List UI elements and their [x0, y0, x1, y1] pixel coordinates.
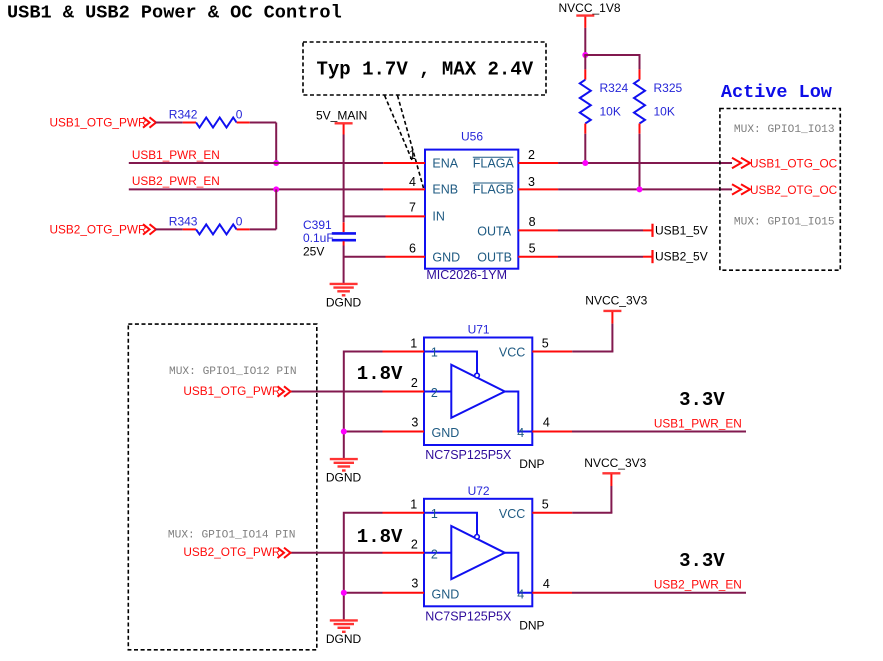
svg-text:8: 8: [529, 215, 536, 229]
pin 5 VCC U71: [532, 351, 572, 353]
wire gnd U71: [344, 431, 383, 433]
svg-text:7: 7: [409, 201, 416, 215]
svg-text:MUX: GPIO1_IO13: MUX: GPIO1_IO13: [734, 124, 835, 136]
svg-text:OUTA: OUTA: [477, 224, 511, 238]
dashed box MUX GPIO right: [720, 109, 840, 271]
resistor R342: [156, 122, 183, 124]
svg-text:Active Low: Active Low: [721, 82, 832, 103]
wire IN pin from 5V rail: [344, 215, 386, 217]
wire output U72 to USB2_PWR_EN: [572, 592, 746, 594]
svg-text:USB2_OTG_PWR: USB2_OTG_PWR: [183, 545, 280, 559]
svg-text:4: 4: [517, 426, 524, 440]
node R324/FLAGA: [582, 160, 588, 166]
svg-text:3: 3: [411, 577, 418, 591]
buffer triangle U72: [451, 526, 505, 579]
svg-text:DNP: DNP: [519, 618, 544, 632]
leader line to pin 4: [398, 96, 424, 189]
svg-text:5: 5: [529, 241, 536, 255]
pin 4 out U72: [532, 592, 572, 594]
wire junction to R325 branch: [584, 54, 640, 56]
port USB1_5V: [651, 224, 653, 237]
wire R343 up to USB2_PWR_EN junction: [250, 228, 276, 230]
pin 3 U72: [383, 592, 425, 594]
node pullup junction: [582, 52, 588, 58]
svg-text:USB1_OTG_OC: USB1_OTG_OC: [750, 157, 838, 171]
svg-text:2: 2: [431, 386, 438, 400]
svg-text:NC7SP125P5X: NC7SP125P5X: [425, 610, 512, 624]
svg-text:DNP: DNP: [519, 457, 544, 471]
leader line to pin 1: [385, 96, 413, 163]
pin 1 U72: [383, 512, 425, 514]
wire gnd U72: [344, 592, 383, 594]
pin 7 (IN): [386, 215, 426, 217]
node gnd junction U71: [341, 429, 347, 435]
svg-text:1: 1: [431, 507, 438, 521]
svg-text:1: 1: [410, 498, 417, 512]
pin 2 U71: [383, 391, 425, 393]
wire USB2_PWR_EN to pin 4: [129, 188, 383, 190]
svg-text:5: 5: [542, 336, 549, 350]
svg-text:USB1_OTG_PWR: USB1_OTG_PWR: [50, 115, 147, 129]
wire USB1_PWR_EN to pin 1: [129, 162, 383, 164]
buffer triangle U71: [451, 365, 505, 418]
output internal route U72: [505, 553, 533, 593]
node junction USB2_PWR_EN: [273, 186, 279, 192]
svg-text:MUX: GPIO1_IO14 PIN: MUX: GPIO1_IO14 PIN: [168, 530, 296, 542]
svg-text:3: 3: [528, 175, 535, 189]
wire R324 to FLAGA net: [584, 134, 586, 163]
pin 8 (OUTA): [518, 229, 558, 231]
svg-text:4: 4: [409, 175, 416, 189]
buffer U71 NC7SP125P5X: [424, 338, 532, 446]
port USB2_OTG_OC: [732, 184, 741, 194]
svg-text:10K: 10K: [654, 105, 675, 119]
wire FLAGB to USB2_OTG_OC: [558, 188, 732, 190]
wire OE riser U71: [344, 352, 383, 459]
wire OUTA to USB1_5V: [558, 229, 643, 231]
node R325/FLAGB: [637, 186, 643, 192]
svg-text:R343: R343: [169, 214, 198, 228]
pin 2 internal route U71: [424, 391, 451, 393]
output internal route U71: [505, 392, 533, 432]
svg-text:3.3V: 3.3V: [679, 389, 725, 411]
svg-text:USB2_OTG_PWR: USB2_OTG_PWR: [50, 222, 147, 236]
svg-text:5V_MAIN: 5V_MAIN: [316, 109, 367, 123]
svg-text:USB1_PWR_EN: USB1_PWR_EN: [132, 148, 220, 162]
svg-text:USB2_PWR_EN: USB2_PWR_EN: [654, 578, 742, 592]
wire R325 to FLAGB net: [639, 134, 641, 190]
svg-text:VCC: VCC: [499, 346, 525, 360]
svg-text:NVCC_1V8: NVCC_1V8: [559, 1, 621, 15]
svg-text:USB2_OTG_OC: USB2_OTG_OC: [750, 183, 838, 197]
svg-text:VCC: VCC: [499, 507, 525, 521]
svg-text:2: 2: [431, 547, 438, 561]
svg-text:U72: U72: [468, 484, 490, 498]
node junction USB1_PWR_EN: [273, 160, 279, 166]
svg-text:1: 1: [410, 336, 417, 350]
svg-text:ENA: ENA: [432, 157, 458, 171]
svg-text:GND: GND: [432, 426, 460, 440]
svg-text:GND: GND: [432, 588, 460, 602]
pin 5 VCC U72: [532, 512, 572, 514]
svg-text:NC7SP125P5X: NC7SP125P5X: [425, 448, 512, 462]
pin 1 internal route U72: [424, 513, 477, 535]
wire R342 to USB1_PWR_EN junction: [250, 122, 276, 124]
svg-text:R325: R325: [654, 81, 683, 95]
svg-text:Typ 1.7V , MAX 2.4V: Typ 1.7V , MAX 2.4V: [317, 59, 534, 81]
node gnd junction U72: [341, 590, 347, 596]
svg-text:USB2_5V: USB2_5V: [655, 250, 708, 264]
svg-text:1.8V: 1.8V: [357, 526, 403, 548]
svg-text:0: 0: [236, 214, 243, 228]
wire NVCC_1V8 to junction: [584, 28, 586, 55]
resistor R343: [156, 228, 183, 230]
pin 5 (OUTB): [518, 256, 558, 258]
pin 1 (ENA): [383, 162, 425, 164]
svg-text:DGND: DGND: [326, 632, 362, 646]
pin 6 (GND): [386, 256, 426, 258]
ground DGND U72: [330, 619, 358, 621]
ground DGND (C391): [330, 283, 358, 285]
svg-text:USB1_PWR_EN: USB1_PWR_EN: [654, 416, 742, 430]
wire GND pin from rail: [344, 256, 386, 258]
pin 2 internal route U72: [424, 552, 451, 554]
buffer U72 NC7SP125P5X: [424, 499, 532, 607]
svg-text:U71: U71: [468, 323, 490, 337]
svg-text:DGND: DGND: [326, 471, 362, 485]
svg-text:U56: U56: [461, 130, 483, 144]
resistor R324: [584, 55, 586, 69]
svg-text:MIC2026-1YM: MIC2026-1YM: [426, 268, 507, 282]
svg-text:3: 3: [411, 415, 418, 429]
op-amp U56 MIC2026-1YM power distribution switch: [425, 150, 518, 269]
pin 1 internal route U71: [424, 352, 477, 374]
svg-text:GND: GND: [432, 251, 460, 265]
OE bubble U72: [475, 535, 480, 540]
pin 4 out U71: [532, 431, 572, 433]
wire output U71 to USB1_PWR_EN: [572, 431, 746, 433]
port USB1_OTG_OC: [732, 158, 741, 168]
wire input U71: [291, 391, 383, 393]
port USB2_5V: [651, 250, 653, 263]
svg-text:USB1_OTG_PWR: USB1_OTG_PWR: [183, 384, 280, 398]
svg-text:1: 1: [431, 346, 438, 360]
svg-text:OUTB: OUTB: [477, 251, 512, 265]
OE bubble U71: [475, 373, 480, 378]
svg-text:2: 2: [411, 537, 418, 551]
pin 3 U71: [383, 431, 425, 433]
svg-text:C391: C391: [303, 218, 332, 232]
wire C391 to ground rail: [343, 241, 345, 245]
svg-text:4: 4: [543, 416, 550, 430]
ground DGND U71: [330, 458, 358, 460]
note box Typ 1.7V , MAX 2.4V: [303, 42, 546, 95]
pin 2 (FLAGA): [518, 162, 558, 164]
svg-text:1.8V: 1.8V: [357, 363, 403, 385]
svg-text:0.1uF: 0.1uF: [303, 231, 334, 245]
svg-text:0: 0: [236, 108, 243, 122]
svg-text:FLAGB: FLAGB: [473, 182, 514, 196]
svg-text:10K: 10K: [600, 105, 621, 119]
svg-text:4: 4: [517, 588, 524, 602]
pin 3 (FLAGB): [518, 188, 558, 190]
wire VCC U71: [611, 324, 613, 352]
svg-text:NVCC_3V3: NVCC_3V3: [585, 294, 647, 308]
svg-text:ENB: ENB: [432, 182, 458, 196]
svg-text:USB1_5V: USB1_5V: [655, 223, 708, 237]
svg-text:5: 5: [542, 498, 549, 512]
pin 4 (ENB): [383, 188, 425, 190]
wire OE riser U72: [344, 513, 383, 620]
resistor R325: [639, 55, 641, 69]
wire input U72: [291, 552, 383, 554]
svg-text:R342: R342: [169, 108, 198, 122]
svg-text:MUX: GPIO1_IO15: MUX: GPIO1_IO15: [734, 217, 835, 229]
wire FLAGA to USB1_OTG_OC: [558, 162, 732, 164]
svg-text:2: 2: [411, 376, 418, 390]
svg-text:6: 6: [409, 241, 416, 255]
svg-text:1: 1: [409, 148, 416, 162]
svg-text:MUX: GPIO1_IO12 PIN: MUX: GPIO1_IO12 PIN: [169, 366, 297, 378]
svg-text:3.3V: 3.3V: [679, 550, 725, 572]
svg-text:USB2_PWR_EN: USB2_PWR_EN: [132, 174, 220, 188]
svg-text:IN: IN: [432, 209, 445, 223]
svg-text:2: 2: [528, 148, 535, 162]
svg-text:R324: R324: [600, 81, 629, 95]
dashed box MUX GPIO left: [128, 324, 316, 650]
wire OUTB to USB2_5V: [558, 256, 643, 258]
capacitor C391: [332, 232, 356, 235]
pin 1 U71: [383, 351, 425, 353]
pin 2 U72: [383, 552, 425, 554]
svg-text:USB1 & USB2 Power & OC Control: USB1 & USB2 Power & OC Control: [7, 3, 342, 24]
wire VCC U72: [610, 486, 612, 513]
svg-text:DGND: DGND: [326, 295, 362, 309]
svg-text:4: 4: [543, 577, 550, 591]
svg-text:25V: 25V: [303, 244, 324, 258]
svg-text:FLAGA: FLAGA: [473, 157, 515, 171]
svg-text:NVCC_3V3: NVCC_3V3: [584, 456, 646, 470]
wire 5V_MAIN vertical rail: [343, 135, 345, 223]
